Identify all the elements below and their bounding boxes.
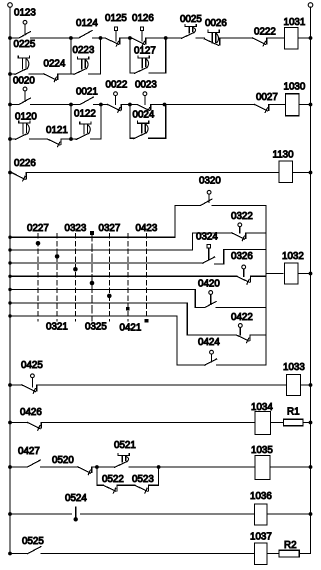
- node 0321 label: [46, 322, 68, 333]
- wire rung2 seg b: [29, 73, 44, 75]
- wire rung9 seg b: [81, 513, 255, 515]
- node 0421 label: [120, 323, 142, 334]
- contact 0126 label: [132, 13, 154, 24]
- contact 0326: [237, 265, 251, 284]
- contact 0022 label: [106, 80, 128, 91]
- wire matrix line4: [8, 275, 237, 278]
- contact 0320: [201, 190, 213, 205]
- svg-text:1130: 1130: [273, 150, 295, 161]
- svg-text:0222: 0222: [254, 27, 276, 38]
- node 0325 label: [85, 322, 107, 333]
- contact 0524: [74, 507, 78, 522]
- svg-text:1033: 1033: [283, 362, 305, 373]
- wire collector bus: [265, 206, 267, 366]
- contact 0521: [115, 453, 130, 467]
- wire rung5 seg b: [27, 172, 279, 174]
- svg-text:0326: 0326: [231, 251, 253, 262]
- svg-text:0025: 0025: [180, 14, 202, 25]
- svg-text:0521: 0521: [114, 440, 136, 451]
- contact 0023: [137, 92, 151, 112]
- svg-text:1036: 1036: [250, 491, 272, 502]
- wire 0422 input: [187, 334, 236, 336]
- svg-text:0524: 0524: [65, 493, 87, 504]
- contact 0026: [205, 30, 220, 45]
- contact 0025 label: [180, 14, 202, 25]
- coil 1034 label: [251, 402, 273, 413]
- svg-text:0321: 0321: [46, 322, 68, 333]
- node 0227 label: [27, 223, 49, 234]
- contact 0223 label: [73, 45, 95, 56]
- node 0423 label: [136, 223, 158, 234]
- wire 0324 output: [215, 250, 267, 265]
- svg-text:0126: 0126: [132, 13, 154, 24]
- contact 0120 label: [15, 112, 37, 123]
- wire matrix line1: [8, 236, 175, 239]
- svg-text:0224: 0224: [44, 59, 66, 70]
- wire rung8 seg d: [129, 465, 161, 469]
- svg-text:1037: 1037: [250, 532, 272, 543]
- svg-text:0426: 0426: [20, 407, 42, 418]
- contact 0024: [134, 121, 149, 139]
- wire 0424 input: [177, 364, 205, 366]
- contact 0521 label: [114, 440, 136, 451]
- branch 0122 right vertical: [100, 105, 102, 140]
- contact 0121: [47, 139, 61, 147]
- wire rung9 seg a: [8, 512, 71, 516]
- wire branch 0223 bottom b: [89, 73, 101, 75]
- contact 0322: [232, 223, 246, 241]
- wire riser to 0424: [176, 316, 178, 365]
- wire 0420 input: [195, 307, 204, 309]
- svg-text:0027: 0027: [256, 92, 278, 103]
- contact 0021: [80, 97, 94, 105]
- wire rung8 seg b: [41, 466, 78, 468]
- svg-text:R2: R2: [284, 540, 297, 551]
- wire rung2 seg c: [58, 73, 71, 75]
- coil 1037 label: [250, 532, 272, 543]
- svg-text:0320: 0320: [199, 176, 221, 187]
- svg-text:0421: 0421: [120, 323, 142, 334]
- wire rung1 seg f: [196, 37, 205, 39]
- contact 0422: [236, 324, 250, 343]
- contact 0523 label: [132, 474, 154, 485]
- svg-text:0023: 0023: [135, 80, 157, 91]
- contact 0226 label: [14, 158, 36, 169]
- contact 0025: [182, 24, 197, 38]
- svg-text:0423: 0423: [136, 223, 158, 234]
- coil 1033 label: [283, 362, 305, 373]
- wire rung3 seg g: [299, 103, 312, 107]
- branch 0127 right vertical: [165, 38, 167, 73]
- wire 0320 output: [212, 205, 266, 207]
- contact 0224: [44, 74, 58, 82]
- svg-text:0123: 0123: [14, 8, 36, 19]
- contact 0424: [205, 350, 217, 365]
- wire rung1 seg b: [31, 36, 79, 40]
- wire rung8 seg c: [92, 465, 114, 469]
- wire rung6 seg b: [37, 384, 286, 386]
- coil 1030: [286, 94, 300, 116]
- wire rung7 seg b: [42, 422, 255, 424]
- wire rung7 seg c: [271, 422, 284, 424]
- svg-text:0422: 0422: [231, 312, 253, 323]
- matrix column 3: [73, 234, 78, 322]
- wire rung3 seg f: [269, 104, 285, 106]
- wire coil 1032 to rail: [298, 272, 312, 276]
- matrix column 6: [126, 234, 130, 322]
- wire branch 0127 bottom b: [149, 72, 166, 74]
- contact 0425: [22, 374, 37, 393]
- branch 0127 left vertical: [129, 38, 131, 73]
- wire rung1 seg d: [121, 36, 132, 40]
- contact 0324 label: [196, 232, 218, 243]
- branch 0122 left vertical: [70, 105, 72, 140]
- wire rung8 seg a: [8, 465, 27, 469]
- contact 0123: [19, 20, 31, 38]
- contact 0326 label: [231, 251, 253, 262]
- svg-text:0125: 0125: [105, 13, 127, 24]
- svg-text:0323: 0323: [65, 223, 87, 234]
- contact 0021 label: [76, 87, 98, 98]
- contact 0026 label: [205, 18, 227, 29]
- left power rail: [8, 3, 13, 554]
- wire rung4 seg c: [62, 137, 73, 141]
- contact 0324: [203, 245, 215, 263]
- contact 0523: [135, 485, 149, 493]
- contact 0224 label: [44, 59, 66, 70]
- wire matrix line7: [8, 314, 177, 317]
- matrix column 4 (dash-dot select line): [90, 231, 95, 321]
- svg-text:1030: 1030: [284, 82, 306, 93]
- wire 0322 output: [246, 232, 266, 234]
- wire rung1 seg h: [267, 37, 284, 39]
- wire riser to 0320: [174, 206, 176, 238]
- coil 1032: [285, 263, 299, 284]
- wire rung4 seg a: [8, 137, 15, 141]
- contact 0427 label: [18, 446, 40, 457]
- svg-text:1031: 1031: [284, 17, 306, 28]
- resistor R1: [284, 419, 304, 426]
- contact 0422 label: [231, 312, 253, 323]
- wire 0424 output: [217, 364, 267, 366]
- contact 0022: [108, 92, 122, 112]
- svg-text:0427: 0427: [18, 446, 40, 457]
- wire rung7 seg d: [303, 421, 312, 425]
- wire 0420 output: [216, 307, 266, 309]
- svg-text:0225: 0225: [14, 39, 36, 50]
- svg-text:0021: 0021: [76, 87, 98, 98]
- svg-text:0523: 0523: [132, 474, 154, 485]
- wire rung6 seg a: [8, 383, 22, 387]
- wire rung5 seg a: [8, 171, 12, 175]
- wire rung10 seg b: [41, 553, 254, 555]
- contact 0124: [79, 31, 93, 39]
- matrix column 1: [36, 234, 41, 322]
- wire 0422 output: [251, 334, 266, 336]
- contact 0223: [74, 57, 89, 75]
- coil 1035 label: [251, 445, 273, 456]
- matrix column 5: [107, 234, 112, 322]
- wire rung7 seg a: [8, 421, 27, 425]
- wire branch 0024 bottom b: [149, 137, 166, 139]
- svg-text:0424: 0424: [198, 337, 220, 348]
- svg-text:0026: 0026: [205, 18, 227, 29]
- coil 1037: [255, 543, 268, 565]
- contact 0525: [28, 547, 41, 554]
- coil 1030 label: [284, 82, 306, 93]
- wire 0320 input: [175, 205, 201, 207]
- wire branch 0024 bottom a: [130, 137, 134, 139]
- contact 0027: [255, 105, 269, 113]
- contact 0320 label: [199, 176, 221, 187]
- svg-text:R1: R1: [287, 407, 300, 418]
- branch 0522/0523 right vertical: [158, 467, 160, 485]
- contact 0125: [105, 27, 120, 46]
- matrix column 2: [55, 234, 60, 322]
- wire bus to coil 1032: [266, 273, 283, 275]
- coil 1034: [255, 412, 271, 435]
- svg-text:1032: 1032: [282, 251, 304, 262]
- contact 0020 label: [13, 76, 35, 87]
- wire rung2 seg a: [8, 72, 15, 76]
- contact 0424 label: [198, 337, 220, 348]
- wire branch 052x bottom c: [149, 484, 159, 486]
- wire rung3 seg a: [8, 103, 19, 107]
- contact 0226: [12, 173, 27, 182]
- contact 0124 label: [76, 18, 98, 29]
- contact 0520 label: [52, 455, 74, 466]
- wire rung1 seg e: [147, 36, 182, 40]
- matrix column 7: [145, 234, 149, 323]
- contact 0126: [132, 27, 146, 46]
- branch 0024 left vertical: [129, 105, 131, 139]
- svg-text:0223: 0223: [73, 45, 95, 56]
- contact 0426: [28, 423, 42, 431]
- wire rung8 seg e: [159, 466, 255, 468]
- coil 1033: [287, 375, 301, 396]
- wire branch 0223 bottom a: [71, 73, 74, 75]
- contact 0127: [135, 56, 150, 74]
- svg-text:0322: 0322: [231, 211, 253, 222]
- wire rung10 seg a: [8, 552, 28, 556]
- wire rung3 seg d: [122, 103, 137, 107]
- coil 1130 label: [273, 150, 295, 161]
- wire branch 0122 bottom a: [71, 138, 76, 140]
- svg-text:0127: 0127: [134, 46, 156, 57]
- wire matrix line5: [8, 288, 195, 291]
- svg-text:0227: 0227: [27, 223, 49, 234]
- wire rung10 seg d: [299, 553, 310, 555]
- right power rail: [308, 3, 313, 554]
- resistor R1 label: [287, 407, 300, 418]
- contact 0420 label: [198, 279, 220, 290]
- wire branch 0127 bottom a: [130, 72, 135, 74]
- svg-text:0121: 0121: [46, 125, 68, 136]
- contact 0426 label: [20, 407, 42, 418]
- contact 0225 label: [14, 39, 36, 50]
- coil 1031 label: [284, 17, 306, 28]
- wire rung1 seg g: [221, 37, 253, 39]
- branch 0024 right vertical: [165, 105, 167, 139]
- contact 0425 label: [21, 360, 43, 371]
- node 0327 label: [99, 223, 121, 234]
- wire rung1 seg i: [298, 36, 312, 40]
- wire matrix line3: [8, 261, 203, 264]
- coil 1035: [255, 456, 270, 480]
- svg-text:0324: 0324: [196, 232, 218, 243]
- svg-text:0525: 0525: [22, 536, 44, 547]
- contact 0420: [205, 291, 217, 308]
- coil 1031: [285, 28, 299, 50]
- wire matrix line2: [8, 248, 192, 251]
- wire rung3 seg b: [31, 103, 81, 107]
- coil 1036 label: [250, 491, 272, 502]
- contact 0020: [19, 87, 31, 104]
- svg-text:0522: 0522: [102, 474, 124, 485]
- wire rung10 seg c: [267, 553, 279, 555]
- svg-text:1035: 1035: [251, 445, 273, 456]
- contact 0027 label: [256, 92, 278, 103]
- contact 0122 label: [74, 109, 96, 120]
- wire branch 052x bottom a: [97, 484, 103, 486]
- svg-text:0024: 0024: [133, 110, 155, 121]
- contact 0125 label: [105, 13, 127, 24]
- coil 1130: [279, 161, 293, 183]
- contact 0427: [27, 460, 40, 467]
- coil 1032 label: [282, 251, 304, 262]
- wire matrix line6: [8, 301, 187, 304]
- branch 0223 left vertical: [70, 38, 72, 74]
- svg-text:0327: 0327: [99, 223, 121, 234]
- contact 0525 label: [22, 536, 44, 547]
- svg-text:0122: 0122: [74, 109, 96, 120]
- resistor R2 label: [284, 540, 297, 551]
- wire branch 052x bottom b: [117, 484, 134, 486]
- wire rung3 seg c: [94, 103, 108, 107]
- contact 0322 label: [231, 211, 253, 222]
- svg-text:0420: 0420: [198, 279, 220, 290]
- contact 0225: [15, 56, 30, 75]
- contact 0023 label: [135, 80, 157, 91]
- branch 0223 right vertical: [100, 38, 102, 74]
- wire rung3 seg e: [151, 103, 254, 107]
- svg-text:0124: 0124: [76, 18, 98, 29]
- wire rung5 seg c: [293, 171, 313, 175]
- wire rung8 seg f: [270, 465, 312, 469]
- contact 0520: [78, 467, 92, 475]
- svg-text:0022: 0022: [106, 80, 128, 91]
- resistor R2: [279, 550, 299, 557]
- contact 0120: [15, 121, 30, 139]
- svg-text:0425: 0425: [21, 360, 43, 371]
- wire rung1 seg c: [93, 36, 106, 40]
- wire branch 0122 bottom b: [91, 138, 101, 140]
- contact 0127 label: [134, 46, 156, 57]
- svg-text:0226: 0226: [14, 158, 36, 169]
- contact 0122: [76, 122, 91, 139]
- contact 0222 label: [254, 27, 276, 38]
- node 0323 label: [65, 223, 87, 234]
- svg-text:0520: 0520: [52, 455, 74, 466]
- branch 0522/0523 left vertical: [96, 467, 98, 485]
- wire rung6 seg c: [301, 383, 313, 387]
- wire rung9 seg c: [267, 512, 312, 516]
- contact 0522: [103, 485, 117, 493]
- svg-text:0325: 0325: [85, 322, 107, 333]
- contact 0123 label: [14, 8, 36, 19]
- wire rung4 seg b: [30, 138, 48, 140]
- contact 0524 label: [65, 493, 87, 504]
- wire riser to 0322: [192, 233, 194, 250]
- contact 0121 label: [46, 125, 68, 136]
- svg-text:0020: 0020: [13, 76, 35, 87]
- wire rung1 seg a: [8, 36, 19, 40]
- contact 0522 label: [102, 474, 124, 485]
- wire 0326 output: [251, 275, 266, 277]
- wire 0322 input: [193, 232, 233, 234]
- contact 0024 label: [133, 110, 155, 121]
- contact 0222: [253, 38, 267, 46]
- coil 1036: [255, 504, 268, 525]
- wire riser to 0422: [186, 303, 188, 335]
- wire riser to 0420: [194, 290, 196, 308]
